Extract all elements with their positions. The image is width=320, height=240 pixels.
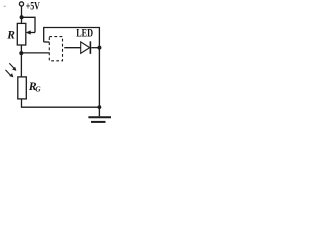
ground bar 1 — [88, 116, 111, 118]
LED cathode bar — [89, 41, 91, 54]
LED diode triangle — [81, 42, 90, 54]
wire dashed box to LED anode — [64, 47, 80, 49]
wire top rail loop — [44, 28, 100, 48]
node: junction dot top of R — [20, 15, 24, 19]
stray scan mark — [4, 6, 6, 7]
ground bar 2 — [91, 121, 106, 123]
wire pot wiper link — [22, 17, 35, 32]
dashed box (control circuit) — [49, 37, 62, 61]
wire from terminal to R — [21, 6, 23, 23]
terminal +5V — [19, 2, 23, 6]
wire right rail down — [98, 47, 100, 116]
wire into dashed box upper pin — [44, 41, 50, 43]
wiper arrow of potentiometer R — [30, 32, 36, 34]
light arrow 1 — [9, 63, 14, 68]
wire LED cathode to rail — [91, 47, 99, 49]
wire divider tap to dashed box — [21, 52, 49, 54]
node: junction dot below R — [19, 51, 23, 55]
node: junction dot at rail/LED — [97, 46, 101, 50]
svg-text:G: G — [35, 85, 41, 94]
light arrow 2 — [6, 70, 11, 75]
photoresistor RG body — [18, 77, 27, 99]
svg-text:R: R — [6, 30, 15, 42]
label +5V — [6, 0, 93, 94]
wire R bottom to node — [20, 45, 22, 55]
wire node down to RG — [20, 53, 22, 77]
wire RG bottom to ground rail — [22, 99, 100, 107]
svg-text:+5V: +5V — [26, 0, 41, 13]
resistor R (potentiometer body) — [17, 23, 26, 45]
node: bottom junction dot — [98, 105, 102, 109]
svg-text:LED: LED — [76, 27, 93, 40]
